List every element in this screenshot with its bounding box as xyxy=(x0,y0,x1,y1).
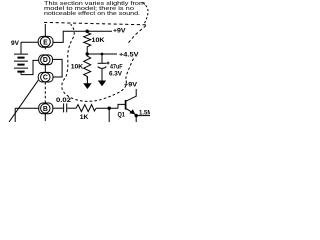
wire emitter to right edge xyxy=(136,115,150,117)
capacitor C1 plus sign xyxy=(107,62,110,65)
wire battery top stub xyxy=(20,42,22,53)
dashed section outline top xyxy=(44,22,146,24)
wire D to C stub xyxy=(44,65,46,73)
capacitor C1 47uF top lead xyxy=(101,54,103,63)
dashed section outline right lower xyxy=(126,59,134,81)
wire node drop to bottom edge xyxy=(108,108,110,122)
connector D xyxy=(39,55,53,65)
wire battery minus to connector D xyxy=(21,60,39,74)
resistor 10K lower xyxy=(84,54,91,80)
svg-text:B: B xyxy=(43,106,48,113)
transistor Q1 base bar xyxy=(125,100,127,110)
svg-text:D: D xyxy=(43,57,48,64)
capacitor C1 curved plate xyxy=(98,67,107,69)
wire base jog xyxy=(118,104,125,108)
resistor 1K xyxy=(76,105,96,112)
wire connector B left xyxy=(15,107,39,109)
connector C xyxy=(38,72,53,82)
node junction at emitter xyxy=(135,114,138,117)
connector E xyxy=(38,36,53,47)
dashed section outline left xyxy=(63,24,74,81)
transistor Q1 emitter arrow xyxy=(129,109,135,114)
connector B xyxy=(39,103,53,114)
node junction at capacitor top xyxy=(101,53,104,56)
wire connector E top stub xyxy=(44,24,46,37)
wire emitter drop to bottom edge xyxy=(135,116,137,122)
resistor 10K upper xyxy=(84,31,91,53)
svg-text:+9V: +9V xyxy=(113,29,126,35)
transistor Q1 collector xyxy=(126,89,136,101)
node junction +4.5V xyxy=(86,52,89,55)
wire 1K to base node xyxy=(96,107,118,109)
node junction at base xyxy=(108,107,111,110)
svg-text:+9V: +9V xyxy=(124,83,137,89)
wire battery bottom stub xyxy=(20,73,22,75)
diagonal wire to connector C xyxy=(9,80,38,122)
wire left drop to bottom edge xyxy=(14,108,16,122)
dashed section outline bottom xyxy=(62,81,127,102)
wire D right bracket xyxy=(53,59,63,77)
svg-text:1.5M: 1.5M xyxy=(139,111,150,117)
svg-text:9V: 9V xyxy=(11,41,19,47)
wire capacitor to resistor 1K xyxy=(67,107,76,109)
capacitor 0.02 plates xyxy=(64,103,67,112)
wire +4.5V node xyxy=(87,53,117,55)
dashed section outline right upper diagonal xyxy=(127,26,146,45)
capacitor C1 top plate xyxy=(98,62,107,64)
svg-text:10K: 10K xyxy=(92,38,106,44)
wire connector E to +9V rail xyxy=(53,31,112,42)
ground arrow below 10K lower xyxy=(86,76,88,83)
wire connector B bottom stub xyxy=(44,114,46,121)
wire B to capacitor 0.02 xyxy=(53,107,63,109)
svg-text:E: E xyxy=(43,39,48,46)
svg-text:+4.5V: +4.5V xyxy=(119,52,139,58)
svg-text:1K: 1K xyxy=(80,115,89,121)
svg-text:10K: 10K xyxy=(71,64,84,70)
battery B1 plates xyxy=(14,54,28,68)
svg-text:C: C xyxy=(43,75,48,82)
dashed wire C to B xyxy=(44,82,46,103)
transistor Q1 emitter xyxy=(126,108,136,115)
svg-text:Q1: Q1 xyxy=(118,113,126,119)
wire connector E bottom tick xyxy=(44,47,46,49)
node junction at 10K top xyxy=(86,30,89,33)
svg-text:47uF: 47uF xyxy=(110,64,123,70)
dashed pointer arc from note to section xyxy=(143,3,149,25)
svg-text:noticeable effect on the sound: noticeable effect on the sound. xyxy=(44,11,140,17)
ground arrow below capacitor xyxy=(101,69,103,81)
svg-text:6.3V: 6.3V xyxy=(109,72,122,78)
wire battery plus to connector E xyxy=(21,41,38,43)
svg-text:0.02: 0.02 xyxy=(56,98,72,104)
